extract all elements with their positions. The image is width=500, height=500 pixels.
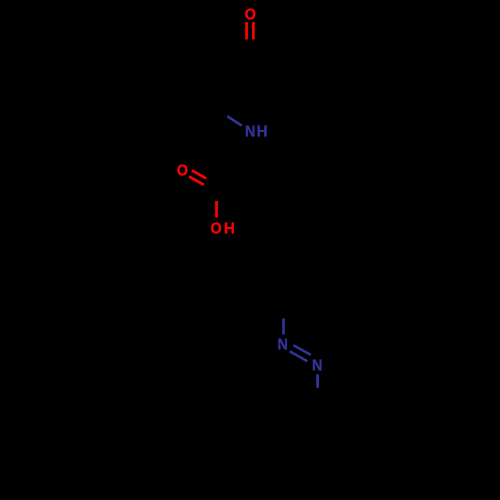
- svg-text:H: H: [224, 220, 235, 237]
- ketone C=O double bond: [247, 22, 254, 40]
- svg-text:N: N: [277, 336, 287, 354]
- bond C-N to amine: [227, 116, 242, 126]
- svg-text:O: O: [210, 220, 221, 238]
- bond C-N to azo N1: [282, 318, 285, 334]
- svg-text:N: N: [245, 123, 255, 141]
- svg-text:H: H: [257, 123, 268, 140]
- azo N=N double bond: [290, 345, 311, 361]
- svg-text:O: O: [245, 6, 256, 24]
- bond N2-C to phenyl: [316, 374, 319, 388]
- svg-text:O: O: [177, 162, 188, 180]
- carboxyl C-OH bond: [215, 201, 218, 218]
- carboxyl C=O double bond: [189, 170, 206, 184]
- svg-text:N: N: [312, 357, 322, 375]
